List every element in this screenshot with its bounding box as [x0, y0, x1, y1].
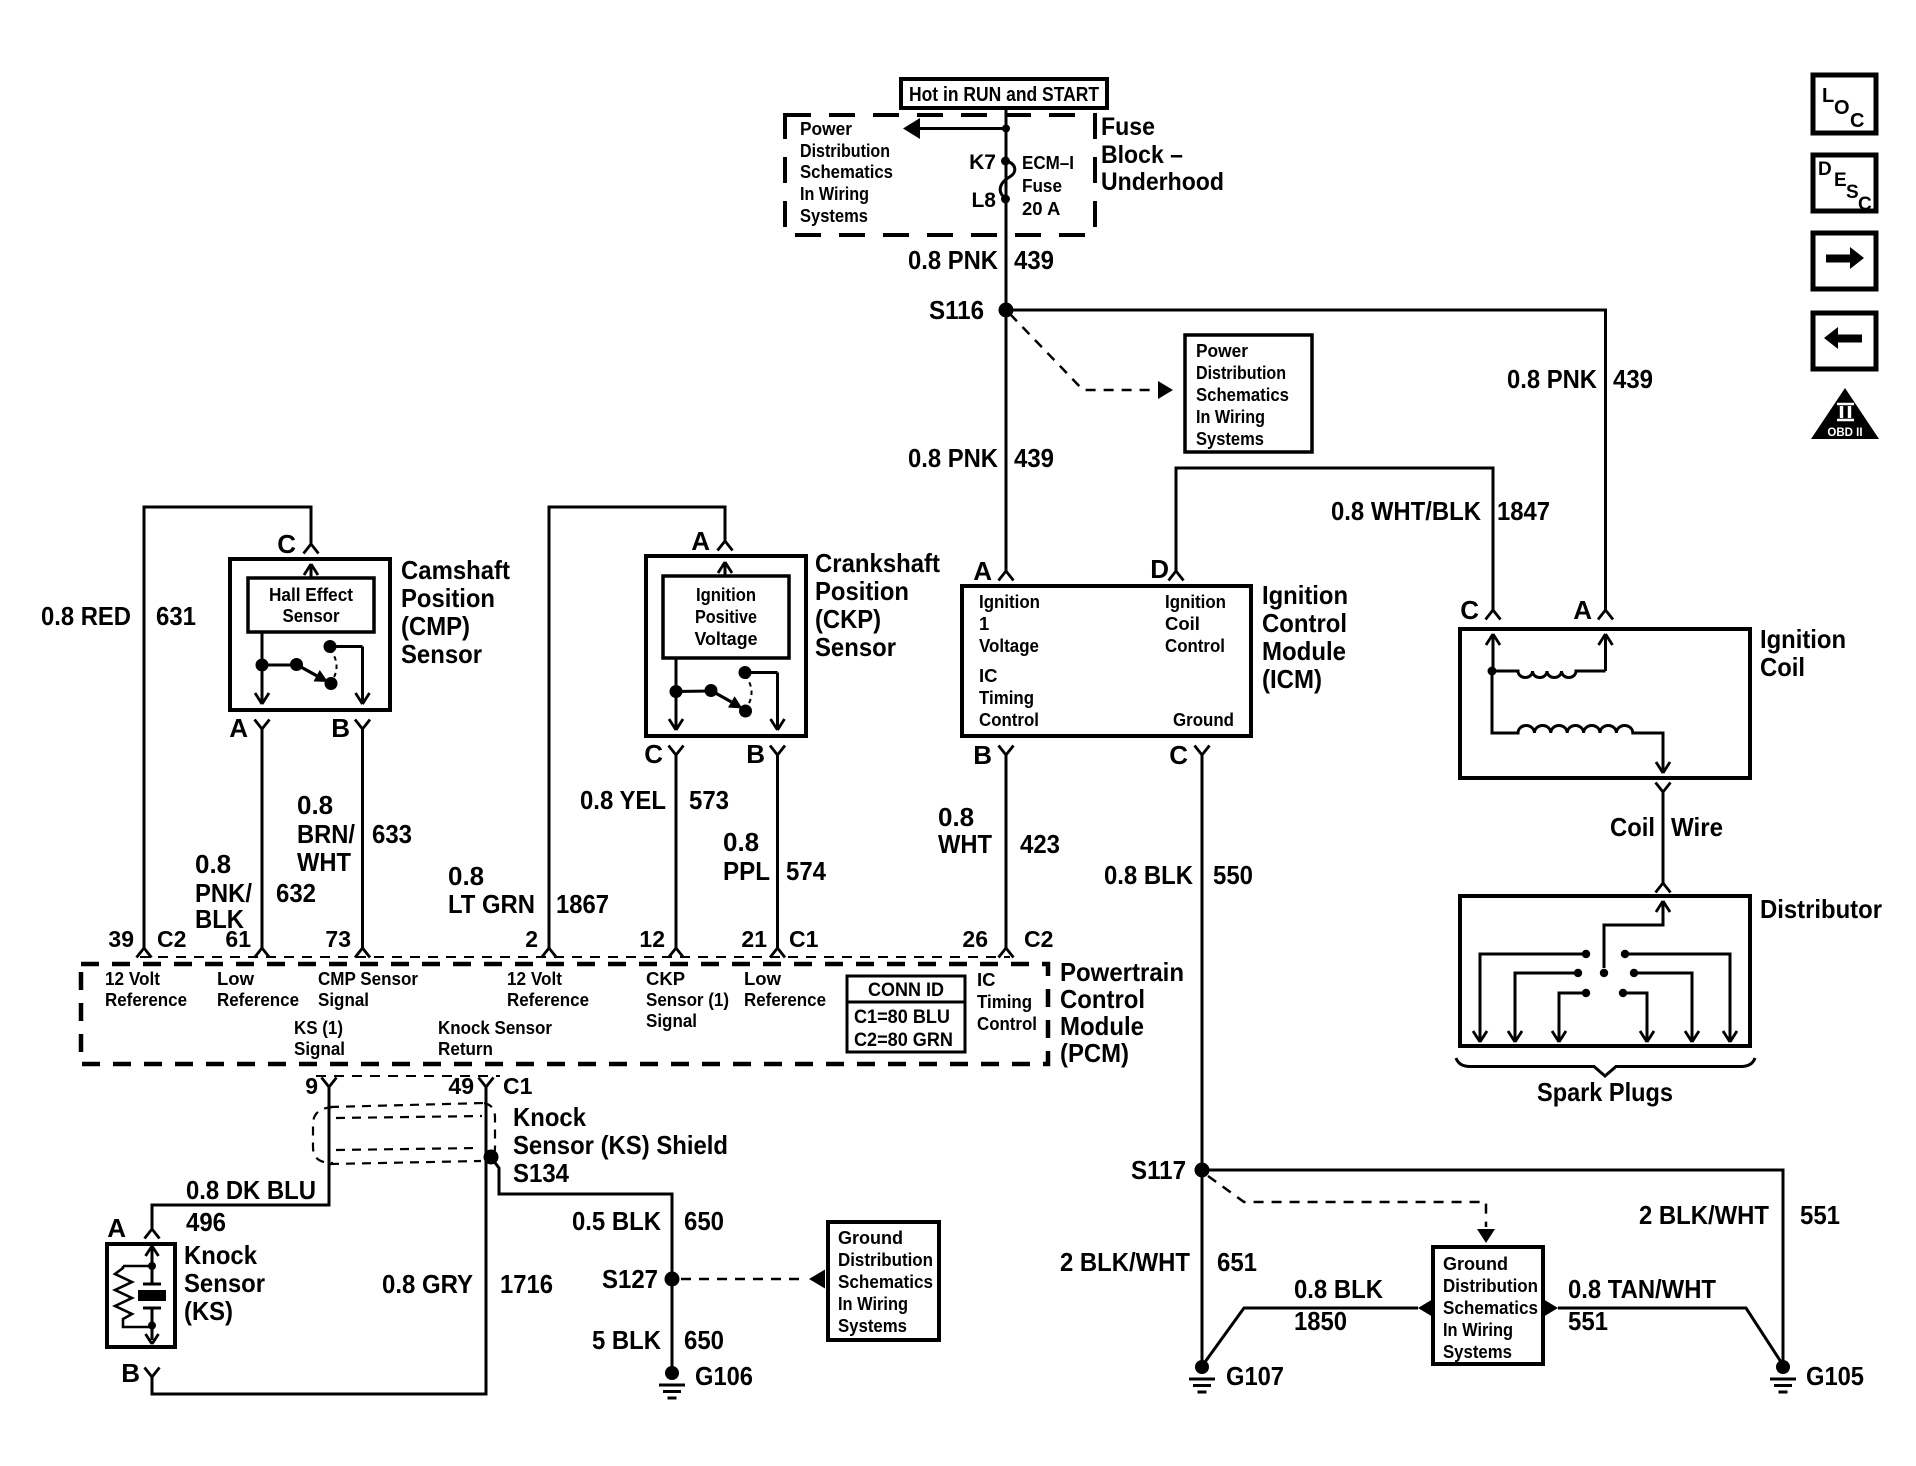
svg-text:A: A	[973, 556, 992, 586]
svg-text:2 BLK/WHT: 2 BLK/WHT	[1060, 1247, 1190, 1277]
svg-text:439: 439	[1014, 245, 1054, 275]
svg-text:2: 2	[525, 926, 538, 952]
switch: CKP output	[675, 658, 678, 691]
note box: ground distribution schematics (left)	[828, 1222, 939, 1340]
svg-text:20 A: 20 A	[1022, 198, 1060, 219]
icon: next arrow button	[1813, 233, 1876, 289]
svg-text:650: 650	[684, 1325, 724, 1355]
svg-text:Voltage: Voltage	[979, 635, 1039, 656]
svg-text:C1: C1	[503, 1073, 533, 1099]
svg-text:Coil: Coil	[1610, 812, 1655, 842]
svg-text:In Wiring: In Wiring	[838, 1293, 908, 1314]
svg-text:0.8 PNK: 0.8 PNK	[1507, 364, 1597, 394]
svg-text:CONN ID: CONN ID	[868, 980, 944, 1001]
svg-text:Ground: Ground	[1443, 1253, 1508, 1274]
brace: spark plugs	[1456, 1058, 1755, 1076]
connector pin A of knock sensor	[145, 1229, 160, 1239]
svg-text:Ignition: Ignition	[1760, 624, 1846, 654]
sensor CMP: camshaft position sensor box	[230, 559, 390, 710]
svg-text:39: 39	[108, 926, 134, 952]
connector pin A of ignition coil	[1598, 610, 1613, 620]
svg-text:Sensor (KS) Shield: Sensor (KS) Shield	[513, 1130, 728, 1160]
svg-text:Schematics: Schematics	[838, 1271, 933, 1292]
svg-text:Control: Control	[1060, 984, 1145, 1014]
svg-text:S127: S127	[602, 1264, 658, 1294]
svg-text:633: 633	[372, 819, 412, 849]
svg-text:C: C	[1460, 595, 1479, 625]
svg-text:In Wiring: In Wiring	[1196, 406, 1265, 427]
svg-text:12 Volt: 12 Volt	[507, 968, 562, 989]
connector pin C of ignition coil	[1486, 610, 1501, 620]
svg-text:ECM–I: ECM–I	[1022, 152, 1074, 173]
wire: CMP B to PCM 73 (0.8 BRN/WHT 633)	[361, 729, 364, 948]
inductor: secondary winding	[1492, 671, 1663, 770]
svg-text:O: O	[1834, 97, 1850, 119]
shield: knock sensor cable shield (dashed)	[330, 1103, 485, 1107]
svg-text:423: 423	[1020, 829, 1060, 859]
connector pin B of ICM	[999, 746, 1014, 756]
svg-text:Module: Module	[1262, 636, 1346, 666]
coil pin A internal arrow	[1604, 634, 1607, 671]
fuse block - underhood dashed box	[785, 115, 1095, 235]
svg-text:Ground: Ground	[838, 1227, 903, 1248]
svg-text:Position: Position	[401, 583, 495, 613]
svg-text:439: 439	[1613, 364, 1653, 394]
svg-text:IC: IC	[977, 969, 996, 990]
svg-text:0.8 YEL: 0.8 YEL	[580, 785, 666, 815]
svg-text:73: 73	[325, 926, 351, 952]
svg-text:(KS): (KS)	[184, 1296, 233, 1326]
svg-text:Hall Effect: Hall Effect	[269, 585, 353, 605]
connector pin B of knock sensor	[145, 1368, 160, 1378]
svg-text:Distribution: Distribution	[838, 1249, 933, 1270]
note box: power distribution schematics in wiring systems	[1185, 335, 1312, 452]
node: primary/secondary junction	[1488, 667, 1497, 676]
wire: S117 to G105 (2 BLK/WHT 551)	[1202, 1170, 1783, 1367]
svg-text:Systems: Systems	[800, 205, 868, 226]
svg-text:In Wiring: In Wiring	[800, 183, 869, 204]
svg-text:LT GRN: LT GRN	[448, 889, 535, 919]
svg-text:G106: G106	[695, 1361, 753, 1391]
svg-text:(PCM): (PCM)	[1060, 1038, 1129, 1068]
svg-text:Ignition: Ignition	[1262, 580, 1348, 610]
svg-text:Distribution: Distribution	[800, 140, 890, 161]
svg-text:A: A	[691, 526, 710, 556]
svg-text:574: 574	[786, 856, 826, 886]
junction box: Hot in RUN and START	[901, 79, 1107, 108]
svg-text:L: L	[1822, 85, 1834, 107]
svg-text:Coil: Coil	[1165, 613, 1200, 634]
svg-text:(CKP): (CKP)	[815, 604, 881, 634]
svg-text:Sensor: Sensor	[283, 606, 340, 626]
svg-text:1: 1	[979, 613, 989, 634]
svg-text:IC: IC	[979, 665, 998, 686]
svg-text:S116: S116	[929, 295, 984, 325]
svg-text:Voltage: Voltage	[695, 629, 758, 649]
connector pin D of ICM	[1169, 571, 1184, 581]
svg-text:Ignition: Ignition	[696, 585, 756, 605]
svg-text:C2: C2	[157, 926, 186, 952]
svg-text:A: A	[1573, 595, 1592, 625]
svg-text:PPL: PPL	[723, 856, 770, 886]
svg-text:21: 21	[741, 926, 767, 952]
wires: spark plug leads	[1480, 954, 1586, 1042]
svg-text:550: 550	[1213, 860, 1253, 890]
svg-text:Power: Power	[800, 118, 852, 139]
svg-text:Signal: Signal	[318, 989, 369, 1010]
svg-text:Control: Control	[979, 709, 1039, 730]
connector pin A of CKP sensor	[718, 541, 733, 551]
svg-text:Sensor: Sensor	[184, 1268, 265, 1298]
node: rotor contact	[1600, 969, 1608, 977]
svg-text:0.8: 0.8	[195, 849, 231, 879]
svg-text:1850: 1850	[1294, 1306, 1347, 1336]
svg-text:Distributor: Distributor	[1760, 894, 1882, 924]
svg-text:Systems: Systems	[1196, 428, 1264, 449]
svg-text:Distribution: Distribution	[1443, 1275, 1538, 1296]
icon: LOC button	[1813, 75, 1876, 133]
svg-text:D: D	[1150, 554, 1169, 584]
svg-text:Position: Position	[815, 576, 909, 606]
node: junction at fuse feed	[1002, 125, 1010, 133]
svg-text:C2: C2	[1024, 926, 1053, 952]
wire: ICM B to PCM 26 (0.8 WHT 423)	[1005, 755, 1008, 948]
svg-text:C: C	[1850, 110, 1864, 132]
wire: ICM D to coil C (0.8 WHT/BLK 1847)	[1176, 468, 1493, 610]
svg-text:In Wiring: In Wiring	[1443, 1319, 1513, 1340]
svg-text:B: B	[331, 713, 350, 743]
svg-text:S117: S117	[1131, 1155, 1186, 1185]
ignition positive voltage inner box	[663, 576, 789, 658]
svg-text:Timing: Timing	[977, 991, 1032, 1012]
connector pins 9 and 49/C1	[322, 1078, 337, 1088]
inductor: primary winding	[1492, 671, 1606, 678]
wire: coil wire	[1662, 792, 1665, 883]
svg-text:Control: Control	[977, 1013, 1037, 1034]
svg-text:C: C	[1169, 740, 1188, 770]
svg-text:496: 496	[186, 1207, 226, 1237]
svg-text:631: 631	[156, 601, 196, 631]
PCM bottom connector row (thin dashed)	[316, 1075, 500, 1077]
svg-text:Coil: Coil	[1760, 652, 1805, 682]
svg-text:Schematics: Schematics	[800, 161, 893, 182]
svg-text:A: A	[107, 1213, 126, 1243]
svg-text:49: 49	[448, 1073, 474, 1099]
wire: S134 shield drain to G106 (0.5 BLK 650)	[493, 1160, 672, 1367]
nodes: distributor cap contacts	[1582, 950, 1590, 958]
svg-text:C1: C1	[789, 926, 819, 952]
node S127	[665, 1272, 680, 1287]
svg-text:A: A	[229, 713, 248, 743]
svg-text:61: 61	[225, 926, 251, 952]
svg-text:0.8 BLK: 0.8 BLK	[1104, 860, 1193, 890]
svg-text:Positive: Positive	[695, 607, 757, 627]
wire: G107 to ground distribution (0.8 BLK 1850)	[1205, 1308, 1418, 1362]
svg-text:Fuse: Fuse	[1022, 175, 1062, 196]
svg-text:OBD II: OBD II	[1827, 427, 1862, 439]
wire: distributor rotor feed	[1656, 901, 1670, 912]
wire: S116 to ignition coil pin A (0.8 PNK 439)	[1006, 310, 1606, 610]
svg-text:B: B	[973, 740, 992, 770]
svg-text:0.8: 0.8	[938, 802, 974, 832]
node S116	[999, 303, 1014, 318]
dashed reference arrow from S117	[1208, 1176, 1486, 1227]
svg-text:Crankshaft: Crankshaft	[815, 548, 940, 578]
svg-text:Signal: Signal	[294, 1038, 345, 1059]
connector: coil wire lower half	[1656, 883, 1671, 893]
svg-text:E: E	[1834, 170, 1847, 191]
ground G105	[1776, 1360, 1790, 1374]
resistor inside knock sensor	[123, 1265, 152, 1268]
svg-text:0.8 PNK: 0.8 PNK	[908, 245, 998, 275]
knock sensor internals: piezo capacitor + resistor	[146, 1246, 159, 1256]
svg-text:C: C	[644, 739, 663, 769]
wire: PCM 39 to CMP C (0.8 RED 631)	[144, 507, 311, 948]
connector pins at PCM top	[137, 948, 152, 958]
svg-text:Powertrain: Powertrain	[1060, 957, 1184, 987]
sensor CKP: crankshaft position sensor box	[646, 556, 806, 736]
note box: ground distribution schematics (right)	[1433, 1247, 1543, 1364]
svg-text:Camshaft: Camshaft	[401, 555, 510, 585]
svg-text:12 Volt: 12 Volt	[105, 968, 160, 989]
svg-text:S134: S134	[513, 1158, 569, 1188]
svg-text:1716: 1716	[500, 1269, 553, 1299]
svg-text:439: 439	[1014, 443, 1054, 473]
fuse ECM-I 20 A (terminals K7 / L8)	[1001, 157, 1010, 166]
svg-text:WHT: WHT	[938, 829, 992, 859]
svg-text:Reference: Reference	[105, 989, 187, 1010]
svg-text:C: C	[1858, 194, 1872, 215]
svg-text:(CMP): (CMP)	[401, 611, 470, 641]
svg-text:Control: Control	[1262, 608, 1347, 638]
wire: CKP internal to pin C	[675, 692, 678, 730]
svg-text:573: 573	[689, 785, 729, 815]
wire: knock sensor B to PCM 49 (0.8 GRY 1716)	[152, 1087, 486, 1394]
svg-text:1847: 1847	[1497, 496, 1550, 526]
svg-text:Wire: Wire	[1671, 812, 1723, 842]
svg-text:Fuse: Fuse	[1101, 113, 1155, 141]
svg-text:Underhood: Underhood	[1101, 168, 1224, 196]
svg-text:Control: Control	[1165, 635, 1225, 656]
svg-text:C1=80 BLU: C1=80 BLU	[854, 1007, 950, 1028]
svg-text:Spark Plugs: Spark Plugs	[1537, 1077, 1673, 1107]
svg-text:Systems: Systems	[1443, 1341, 1512, 1362]
svg-text:551: 551	[1568, 1306, 1608, 1336]
svg-text:Ground: Ground	[1173, 709, 1234, 730]
svg-text:12: 12	[639, 926, 665, 952]
svg-text:WHT: WHT	[297, 847, 351, 877]
svg-text:Sensor: Sensor	[815, 632, 896, 662]
icon: back arrow button	[1813, 313, 1876, 369]
svg-text:Reference: Reference	[217, 989, 299, 1010]
svg-text:Low: Low	[217, 968, 255, 989]
svg-text:B: B	[121, 1358, 140, 1388]
wire: ground distribution to G105 (0.8 TAN/WHT 551)	[1558, 1308, 1781, 1362]
CONN ID table	[847, 976, 965, 1052]
connector pin C of CMP sensor	[304, 544, 319, 554]
svg-text:0.8 PNK: 0.8 PNK	[908, 443, 998, 473]
icon: DESC button	[1813, 155, 1876, 211]
svg-text:S: S	[1846, 182, 1859, 203]
wire: ignition feed from fuse block to S116	[1005, 108, 1008, 310]
svg-text:0.5 BLK: 0.5 BLK	[572, 1206, 661, 1236]
svg-text:Low: Low	[744, 968, 782, 989]
svg-text:C: C	[277, 529, 296, 559]
connector pin B of CKP	[770, 746, 785, 756]
svg-text:Block –: Block –	[1101, 141, 1183, 169]
svg-text:G107: G107	[1226, 1361, 1284, 1391]
sensor KS: knock sensor box	[107, 1244, 175, 1347]
module PCM dashed box	[81, 964, 1048, 1064]
svg-text:Signal: Signal	[646, 1010, 697, 1031]
svg-text:5 BLK: 5 BLK	[592, 1325, 661, 1355]
wire: PCM 9 to knock sensor A (0.8 DK BLU 496)	[152, 1087, 329, 1229]
svg-text:G105: G105	[1806, 1361, 1864, 1391]
wire: ICM C ground wire to S117/G107 (0.8 BLK 550)	[1201, 755, 1204, 1367]
wire: CKP C to PCM 12 (0.8 YEL 573)	[675, 755, 678, 948]
svg-text:0.8 DK BLU: 0.8 DK BLU	[186, 1175, 316, 1205]
svg-text:Schematics: Schematics	[1196, 384, 1289, 405]
svg-text:CKP: CKP	[646, 968, 685, 989]
node S134 (shield splice)	[484, 1150, 499, 1165]
svg-text:1867: 1867	[556, 889, 609, 919]
svg-text:Power: Power	[1196, 340, 1248, 361]
module ICM: ignition control module box	[962, 586, 1251, 736]
svg-text:C2=80 GRN: C2=80 GRN	[854, 1030, 953, 1051]
svg-text:KS (1): KS (1)	[294, 1017, 343, 1038]
arrow: hall sensor to pin C	[310, 564, 313, 578]
wire: CMP internal to pin A	[261, 665, 264, 703]
transformer: ignition coil box	[1460, 629, 1750, 778]
svg-text:Reference: Reference	[744, 989, 826, 1010]
icon: OBD II symbol	[1811, 388, 1879, 439]
ground G107	[1195, 1360, 1209, 1374]
svg-text:K7: K7	[969, 151, 996, 174]
svg-text:651: 651	[1217, 1247, 1257, 1277]
svg-text:Systems: Systems	[838, 1315, 907, 1336]
svg-text:L8: L8	[971, 189, 996, 212]
svg-text:Hot in RUN and START: Hot in RUN and START	[909, 84, 1099, 106]
svg-text:0.8 WHT/BLK: 0.8 WHT/BLK	[1331, 496, 1481, 526]
svg-text:0.8: 0.8	[297, 790, 333, 820]
connector pin B of CMP	[355, 720, 370, 730]
arrow: inner box to pin A	[724, 562, 727, 576]
svg-text:0.8 TAN/WHT: 0.8 TAN/WHT	[1568, 1274, 1716, 1304]
connector: coil wire upper half	[1656, 783, 1671, 793]
svg-text:0.8: 0.8	[723, 827, 759, 857]
svg-text:Knock Sensor: Knock Sensor	[438, 1017, 552, 1038]
svg-text:Sensor: Sensor	[401, 639, 482, 669]
hall effect sensor inner box	[248, 578, 374, 632]
svg-text:Ignition: Ignition	[979, 591, 1040, 612]
wire: branch to power distribution with arrow	[920, 127, 1006, 130]
svg-text:D: D	[1818, 159, 1832, 180]
svg-text:632: 632	[276, 878, 316, 908]
switch: CMP hall output	[261, 632, 264, 665]
distributor box	[1460, 896, 1750, 1046]
wire: CKP B to PCM 21 (0.8 PPL 574)	[776, 755, 779, 948]
svg-text:BRN/: BRN/	[297, 819, 355, 849]
svg-text:(ICM): (ICM)	[1262, 664, 1322, 694]
svg-text:Knock: Knock	[513, 1102, 586, 1132]
connector pin C of ICM	[1195, 746, 1210, 756]
svg-text:Distribution: Distribution	[1196, 362, 1286, 383]
svg-text:Module: Module	[1060, 1011, 1144, 1041]
svg-text:B: B	[746, 739, 765, 769]
svg-text:0.8 GRY: 0.8 GRY	[382, 1269, 473, 1299]
svg-text:551: 551	[1800, 1200, 1840, 1230]
PCM connector row (thin dashed)	[140, 956, 1010, 958]
svg-text:0.8 RED: 0.8 RED	[41, 601, 131, 631]
svg-text:Sensor (1): Sensor (1)	[646, 989, 729, 1010]
svg-text:Reference: Reference	[507, 989, 589, 1010]
coil pin C internal arrow	[1492, 634, 1495, 671]
svg-text:9: 9	[305, 1073, 318, 1099]
connector pin C of CKP	[669, 746, 684, 756]
ground G106	[665, 1366, 679, 1380]
svg-text:26: 26	[962, 926, 988, 952]
wire: CMP A to PCM 61 (0.8 PNK/BLK 632)	[261, 729, 264, 948]
svg-text:Timing: Timing	[979, 687, 1034, 708]
node S117	[1195, 1163, 1210, 1178]
connector pin A of CMP	[255, 720, 270, 730]
svg-text:0.8 BLK: 0.8 BLK	[1294, 1274, 1383, 1304]
dashed reference arrow from S116	[1010, 314, 1157, 390]
svg-text:Return: Return	[438, 1038, 493, 1059]
svg-text:Schematics: Schematics	[1443, 1297, 1538, 1318]
svg-text:2 BLK/WHT: 2 BLK/WHT	[1639, 1200, 1769, 1230]
wire: CMP internal to pin B	[361, 647, 364, 704]
dashed reference arrow from S127	[681, 1278, 805, 1281]
svg-text:Knock: Knock	[184, 1240, 257, 1270]
wire: S116 down to ICM pin A (0.8 PNK 439)	[1005, 310, 1008, 571]
svg-text:650: 650	[684, 1206, 724, 1236]
svg-text:CMP Sensor: CMP Sensor	[318, 968, 418, 989]
wire: PCM 2 to CKP A (0.8 LT GRN 1867)	[549, 507, 725, 948]
connector pin A of ICM	[999, 571, 1014, 581]
svg-text:0.8: 0.8	[448, 861, 484, 891]
svg-text:Ignition: Ignition	[1165, 591, 1226, 612]
wire: CKP internal to pin B	[776, 673, 779, 730]
